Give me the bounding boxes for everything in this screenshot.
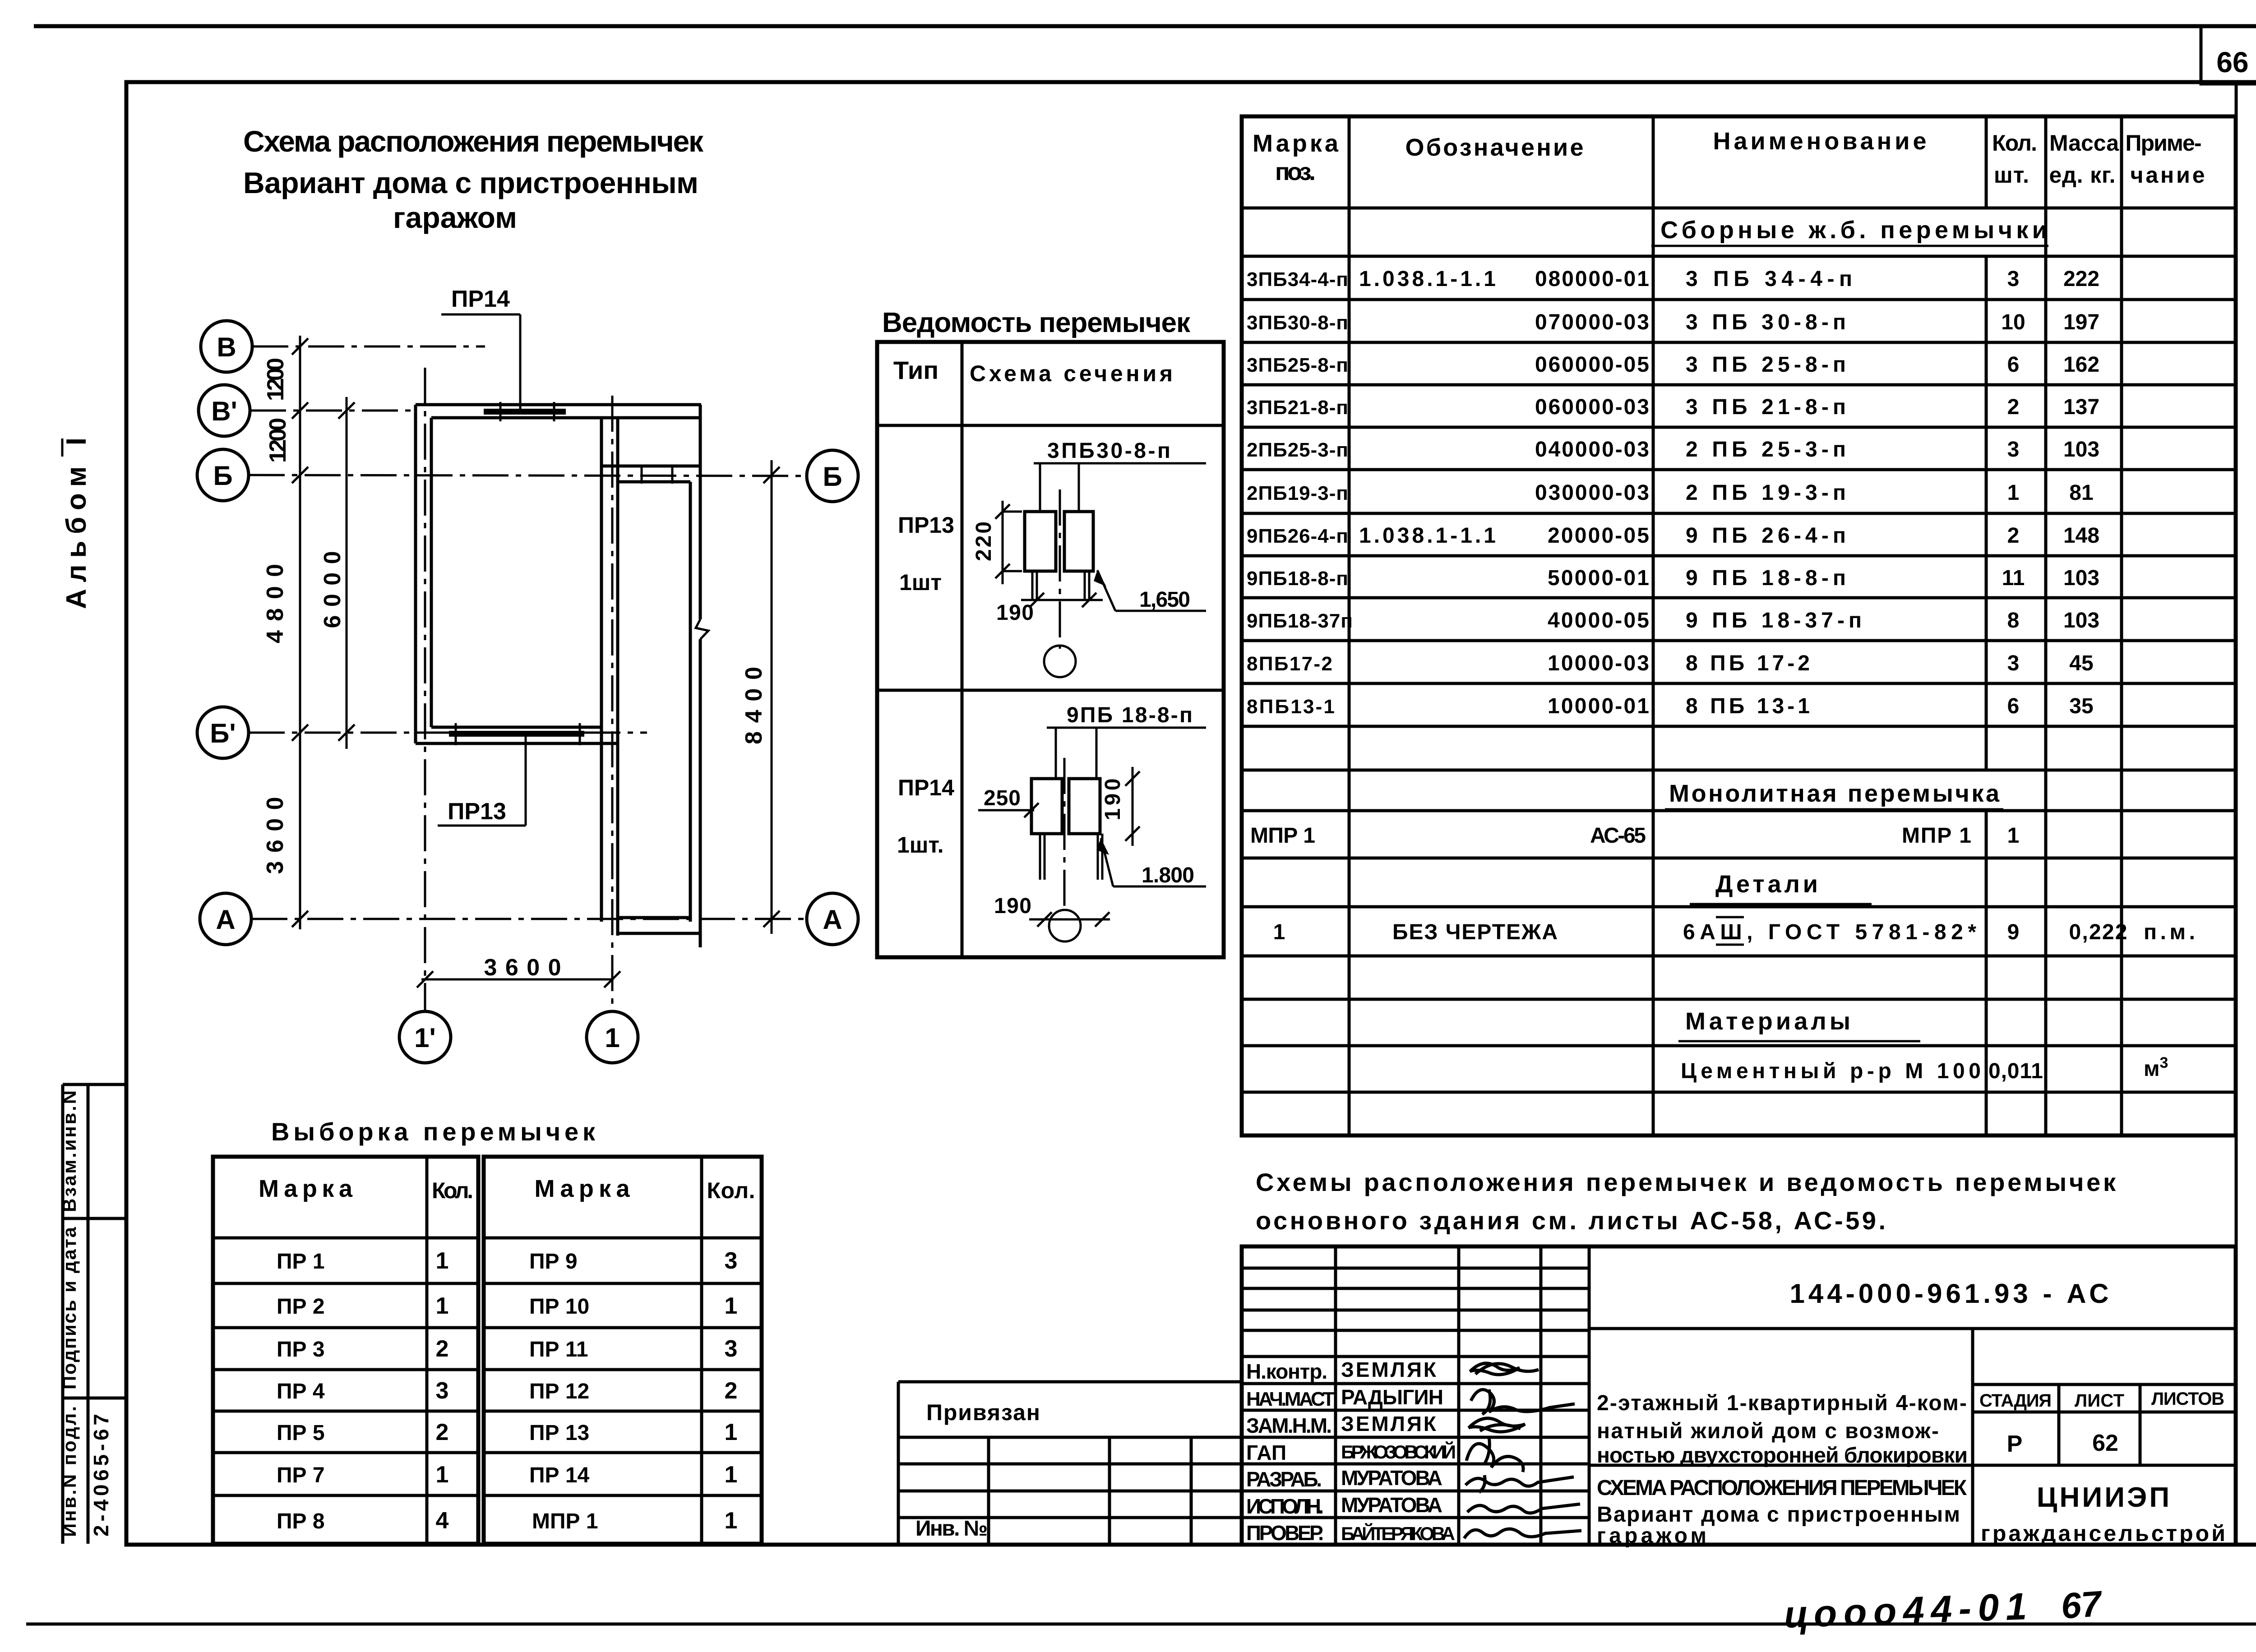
svg-text:1: 1 <box>725 1419 738 1445</box>
elevation 1,650 arrow <box>1097 570 1115 611</box>
section ПР14 block right <box>1069 779 1100 834</box>
svg-text:ПР 9: ПР 9 <box>529 1250 578 1274</box>
garage right wall outer upper <box>699 405 702 619</box>
Ведомость section separator line <box>877 689 1224 692</box>
svg-text:ПР13: ПР13 <box>448 798 506 825</box>
axis line В <box>252 346 485 348</box>
title block v-line roles/names <box>1334 1246 1337 1545</box>
svg-text:ЛИСТ: ЛИСТ <box>2075 1391 2124 1411</box>
elevation 1,650 base line <box>1115 610 1206 612</box>
wall bottom inner <box>431 726 601 729</box>
title block v-line стадия/лист <box>2057 1384 2061 1465</box>
svg-text:В: В <box>217 332 236 362</box>
svg-text:ПР 8: ПР 8 <box>277 1509 325 1533</box>
svg-text:0,222: 0,222 <box>2069 920 2127 944</box>
overline on I of Альбом I <box>61 438 64 457</box>
svg-text:СХЕМА РАСПОЛОЖЕНИЯ ПЕРЕМЫЧЕК: СХЕМА РАСПОЛОЖЕНИЯ ПЕРЕМЫЧЕК <box>1597 1476 1967 1500</box>
svg-text:Привязан: Привязан <box>926 1400 1040 1425</box>
svg-text:Марка: Марка <box>1253 130 1339 157</box>
svg-text:ПР 4: ПР 4 <box>277 1380 325 1403</box>
svg-text:1200: 1200 <box>265 418 291 463</box>
svg-text:Ведомость перемычек: Ведомость перемычек <box>882 307 1191 338</box>
svg-text:БЕЗ ЧЕРТЕЖА: БЕЗ ЧЕРТЕЖА <box>1392 920 1558 944</box>
svg-text:8: 8 <box>2007 609 2020 632</box>
svg-text:2: 2 <box>436 1336 449 1362</box>
signature squiggle 5 <box>1465 1477 1574 1486</box>
section ПР14 leg lines <box>1039 834 1041 880</box>
axis line Б' <box>249 732 647 734</box>
svg-text:2: 2 <box>2007 524 2020 548</box>
svg-text:1,650: 1,650 <box>1139 588 1190 612</box>
svg-text:БРЖОЗОВСКИЙ: БРЖОЗОВСКИЙ <box>1341 1441 1456 1463</box>
svg-text:1: 1 <box>725 1293 738 1319</box>
svg-text:070000-03: 070000-03 <box>1535 310 1649 334</box>
wall left inner <box>430 418 433 727</box>
svg-text:СТАДИЯ: СТАДИЯ <box>1979 1391 2052 1411</box>
svg-text:148: 148 <box>2063 524 2099 548</box>
svg-text:10000-01: 10000-01 <box>1548 694 1649 718</box>
svg-text:103: 103 <box>2063 438 2099 461</box>
lintel ПР13 bar <box>449 731 584 737</box>
svg-text:162: 162 <box>2063 353 2099 377</box>
title block thin top rows <box>1242 1267 1589 1270</box>
axis circle 1 <box>587 1011 638 1063</box>
svg-text:Марка: Марка <box>535 1175 630 1202</box>
dim 190 right ticks <box>1125 771 1140 786</box>
spec col sep Обозначение/Наименование <box>1652 116 1655 1135</box>
svg-text:10000-03: 10000-03 <box>1548 651 1649 675</box>
elevation 1.800 base line <box>1113 886 1206 888</box>
tick 6000 bottom <box>338 724 355 741</box>
svg-text:2-этажный 1-квартирный 4-ком-: 2-этажный 1-квартирный 4-ком- <box>1597 1391 1967 1415</box>
axis line 1' <box>424 368 426 1011</box>
svg-text:20000-05: 20000-05 <box>1548 524 1649 548</box>
svg-text:1: 1 <box>2007 481 2020 505</box>
dim 220 line <box>1002 501 1004 584</box>
svg-text:1: 1 <box>436 1462 449 1488</box>
section ПР14 centerline <box>1063 758 1066 908</box>
svg-text:МПР 1: МПР 1 <box>1250 824 1315 848</box>
leader ПР14 vertical <box>519 314 522 409</box>
Выборка table 2 outer <box>484 1157 762 1544</box>
svg-text:1.038.1-1.1: 1.038.1-1.1 <box>1359 524 1496 548</box>
axis circle А right <box>807 893 858 945</box>
axis line А <box>251 918 807 920</box>
title block v-line names/signatures <box>1457 1246 1461 1545</box>
svg-text:А: А <box>216 904 235 935</box>
svg-text:ед. кг.: ед. кг. <box>2049 162 2116 188</box>
dim 220 ext bottom <box>1003 570 1022 572</box>
svg-text:ПР 2: ПР 2 <box>277 1295 325 1319</box>
svg-text:РАЗРАБ.: РАЗРАБ. <box>1246 1467 1322 1491</box>
section ПР14 node circle <box>1049 910 1081 941</box>
garage bottom wall inner <box>618 916 689 919</box>
svg-text:А: А <box>823 904 842 935</box>
svg-text:ПРОВЕР.: ПРОВЕР. <box>1246 1521 1324 1545</box>
svg-text:080000-01: 080000-01 <box>1535 267 1649 291</box>
svg-text:НАЧ.МАСТ: НАЧ.МАСТ <box>1246 1388 1335 1410</box>
svg-text:ПР14: ПР14 <box>451 286 510 312</box>
svg-text:9ПБ 18-8-п: 9ПБ 18-8-п <box>1067 703 1193 727</box>
section ПР14 block left <box>1031 779 1062 834</box>
axis circle Б <box>197 449 249 501</box>
title block v-line date/description <box>1588 1246 1591 1545</box>
svg-text:3: 3 <box>2007 267 2020 291</box>
svg-text:11: 11 <box>2002 566 2025 590</box>
svg-text:67: 67 <box>2060 1583 2104 1626</box>
svg-text:Н.контр.: Н.контр. <box>1246 1360 1327 1383</box>
dimension line 6000 <box>346 397 348 749</box>
signature squiggle 2 <box>1471 1389 1575 1412</box>
svg-text:1: 1 <box>436 1293 449 1319</box>
svg-text:ПР 11: ПР 11 <box>529 1338 588 1361</box>
title block v-line signatures/date <box>1539 1246 1543 1545</box>
svg-text:Масса: Масса <box>2049 130 2119 156</box>
svg-text:2ПБ25-3-п: 2ПБ25-3-п <box>1247 439 1348 461</box>
Привязан block v-lines <box>987 1437 990 1545</box>
svg-text:Схема сечения: Схема сечения <box>970 361 1173 386</box>
wall right outer line (axis 1) <box>616 418 619 936</box>
svg-text:8ПБ13-1: 8ПБ13-1 <box>1247 696 1335 718</box>
svg-text:030000-03: 030000-03 <box>1535 481 1649 505</box>
garage lintel tick right <box>671 466 674 484</box>
elevation 1.800 arrow <box>1101 838 1113 886</box>
signature squiggle 6 <box>1467 1504 1580 1513</box>
tick В' <box>292 402 308 419</box>
svg-text:197: 197 <box>2063 310 2099 334</box>
Выборка table 1 col sep <box>425 1157 429 1544</box>
svg-text:2-4065-67: 2-4065-67 <box>89 1414 113 1537</box>
svg-text:Приме-: Приме- <box>2126 130 2202 156</box>
axis circle 1' <box>399 1011 451 1063</box>
tick Б <box>292 467 308 483</box>
svg-text:3: 3 <box>2007 651 2020 675</box>
title block стадия header bottom <box>1973 1411 2236 1414</box>
svg-text:МУРАТОВА: МУРАТОВА <box>1341 1493 1442 1517</box>
dim 190 line (ПР13) <box>1021 599 1103 601</box>
svg-text:Кол.: Кол. <box>1992 130 2037 156</box>
svg-text:гаражом: гаражом <box>1597 1524 1706 1548</box>
section ПР14 leader right <box>1096 728 1098 779</box>
svg-text:8ПБ17-2: 8ПБ17-2 <box>1247 653 1332 675</box>
garage bottom wall outer <box>618 932 700 935</box>
spec col sep Наименование/Кол (segmented to skip section titles) <box>1985 116 1988 208</box>
axis circle Б' <box>197 707 249 758</box>
svg-text:ПР 1: ПР 1 <box>277 1250 325 1274</box>
svg-text:Обозначение: Обозначение <box>1405 134 1584 161</box>
svg-text:Марка: Марка <box>259 1175 353 1202</box>
svg-text:250: 250 <box>984 786 1021 810</box>
section ПР13 node circle <box>1044 646 1076 677</box>
svg-text:Инв. №: Инв. № <box>915 1517 988 1541</box>
axis circle В' <box>199 385 250 436</box>
title block line under стадия area top <box>1973 1383 2236 1386</box>
dim 190 right line <box>1132 767 1134 846</box>
section ПР13 leg lines <box>1031 571 1034 600</box>
wall left outer <box>414 405 417 743</box>
section ПР13 leader left <box>1039 463 1041 512</box>
dimension line 8400 <box>771 460 773 934</box>
svg-text:Вариант дома с пристроенным: Вариант дома с пристроенным <box>1597 1503 1960 1527</box>
signature squiggle 1 <box>1470 1363 1520 1375</box>
svg-text:РАДЫГИН: РАДЫГИН <box>1341 1385 1443 1409</box>
svg-text:1: 1 <box>605 1023 619 1053</box>
svg-text:ПР14: ПР14 <box>898 775 954 800</box>
garage lintel tick left <box>641 466 643 484</box>
svg-text:Б: Б <box>823 461 842 492</box>
svg-text:81: 81 <box>2069 481 2093 505</box>
svg-text:2: 2 <box>2007 395 2020 419</box>
svg-text:9: 9 <box>2007 920 2020 944</box>
svg-text:190: 190 <box>994 894 1031 918</box>
wall top outer <box>416 403 701 406</box>
left sidebar column box lines <box>61 1084 65 1544</box>
signature squiggle 7 <box>1464 1529 1581 1538</box>
wall right inner line (axis 1) <box>600 418 603 922</box>
section ПР13 leader right <box>1078 463 1080 512</box>
axis circle А <box>200 893 251 945</box>
dim 220 tick top <box>995 504 1010 519</box>
svg-text:4: 4 <box>436 1508 449 1534</box>
svg-text:1.038.1-1.1: 1.038.1-1.1 <box>1359 267 1496 291</box>
svg-text:2ПБ19-3-п: 2ПБ19-3-п <box>1247 482 1348 504</box>
svg-text:Схема расположения перемычек: Схема расположения перемычек <box>243 125 704 158</box>
svg-text:ПР 13: ПР 13 <box>529 1421 589 1445</box>
Выборка row lines table 1 <box>213 1237 478 1240</box>
dim 220 tick bottom <box>995 564 1010 578</box>
svg-text:БАЙТЕРЯКОВА: БАЙТЕРЯКОВА <box>1341 1523 1455 1544</box>
svg-text:3: 3 <box>725 1336 738 1362</box>
Ведомость header bottom line <box>877 424 1224 427</box>
svg-text:основного здания см. листы АС-: основного здания см. листы АС-58, АС-59. <box>1256 1206 1886 1235</box>
tick 3600 right <box>604 971 620 988</box>
sheet number box 66 <box>2201 26 2256 84</box>
title block line under 144-000 cell <box>1589 1327 2236 1330</box>
svg-text:190: 190 <box>1101 779 1125 821</box>
dim 190 bottom line (ПР14) <box>1029 918 1110 921</box>
Привязан block left edge <box>897 1382 900 1545</box>
dimension line left 1200/1200/4800/3600 <box>299 336 301 929</box>
svg-text:9ПБ18-37п: 9ПБ18-37п <box>1247 610 1353 632</box>
lintel ПР14 end tick right <box>553 402 555 421</box>
svg-text:1: 1 <box>725 1462 738 1488</box>
dim 250 line <box>978 809 1034 812</box>
svg-text:137: 137 <box>2063 395 2099 419</box>
tick 3600 left <box>417 971 433 988</box>
svg-text:144-000-961.93 - АС: 144-000-961.93 - АС <box>1790 1278 2109 1309</box>
tick 8400 bottom <box>763 911 780 927</box>
svg-text:ЛИСТОВ: ЛИСТОВ <box>2151 1389 2224 1409</box>
svg-text:1': 1' <box>414 1023 436 1053</box>
svg-text:Монолитная перемычка: Монолитная перемычка <box>1669 780 2000 807</box>
svg-text:1шт.: 1шт. <box>897 832 943 858</box>
svg-text:Р: Р <box>2007 1431 2023 1457</box>
leader ПР13 underline <box>438 825 526 827</box>
axis circle Б right <box>807 450 858 502</box>
wall bottom outer <box>416 742 618 745</box>
inner right vertical line <box>2235 84 2238 1545</box>
svg-text:1шт: 1шт <box>899 570 942 595</box>
svg-text:ПР 5: ПР 5 <box>277 1421 325 1445</box>
title block line under description <box>1589 1464 2236 1467</box>
lintel ПР13 end tick left <box>455 723 457 745</box>
svg-text:3: 3 <box>725 1248 738 1274</box>
lintel ПР13 end tick right <box>579 723 581 745</box>
svg-text:3ПБ30-8-п: 3ПБ30-8-п <box>1247 312 1348 334</box>
svg-text:Выборка перемычек: Выборка перемычек <box>271 1117 596 1146</box>
Привязан block row lines <box>898 1436 1242 1439</box>
signature squiggle 3 <box>1469 1418 1525 1432</box>
dimension line 3600 bottom <box>421 978 614 981</box>
svg-text:гаражом: гаражом <box>393 201 517 234</box>
svg-text:В': В' <box>211 396 237 426</box>
svg-text:060000-03: 060000-03 <box>1535 395 1649 419</box>
section ПР14 leader left <box>1055 728 1057 779</box>
section ПР13 block right <box>1064 512 1093 571</box>
svg-text:060000-05: 060000-05 <box>1535 353 1649 377</box>
lintel ПР14 end tick left <box>499 402 502 421</box>
spec col sep Кол/Масса <box>2044 116 2048 1135</box>
svg-text:МУРАТОВА: МУРАТОВА <box>1341 1466 1442 1490</box>
tick Б' <box>292 724 308 741</box>
svg-text:8 ПБ 13-1: 8 ПБ 13-1 <box>1686 694 1810 718</box>
section ПР13 label underline <box>1034 462 1206 465</box>
section ПР13 centerline <box>1059 489 1061 649</box>
svg-text:45: 45 <box>2069 651 2093 675</box>
svg-text:1: 1 <box>436 1248 449 1274</box>
title block v-line description/стадия <box>1971 1329 1974 1545</box>
svg-text:2: 2 <box>725 1378 738 1404</box>
tick А <box>292 911 308 927</box>
svg-text:62: 62 <box>2092 1430 2118 1456</box>
svg-text:цооо44-01: цооо44-01 <box>1783 1585 2027 1636</box>
svg-text:1: 1 <box>725 1508 738 1534</box>
svg-text:Взам.инв.N: Взам.инв.N <box>59 1090 80 1212</box>
section ПР13 block left <box>1025 512 1056 571</box>
svg-text:9ПБ26-4-п: 9ПБ26-4-п <box>1247 525 1348 547</box>
break mark on garage right wall <box>696 619 708 639</box>
svg-text:Подпись и дата: Подпись и дата <box>59 1227 80 1389</box>
svg-text:шт.: шт. <box>1994 162 2029 188</box>
svg-text:ГАП: ГАП <box>1246 1441 1286 1464</box>
dim 190 ticks <box>1030 593 1044 607</box>
title block outer box <box>1242 1246 2236 1545</box>
svg-text:ПР 12: ПР 12 <box>529 1380 589 1403</box>
axis line В' <box>250 410 416 412</box>
svg-text:3: 3 <box>2007 438 2020 461</box>
Ведомость column separator <box>961 342 964 957</box>
svg-text:3ПБ34-4-п: 3ПБ34-4-п <box>1247 268 1348 291</box>
svg-text:1: 1 <box>2007 824 2020 848</box>
svg-text:Б: Б <box>213 461 232 491</box>
Выборка row lines table 2 <box>484 1237 762 1240</box>
dim 190 bottom ticks <box>1037 912 1052 927</box>
section ПР14 label underline <box>1047 727 1206 729</box>
svg-text:ИСПОЛН.: ИСПОЛН. <box>1246 1495 1324 1518</box>
svg-text:35: 35 <box>2069 694 2093 718</box>
svg-text:50000-01: 50000-01 <box>1548 566 1649 590</box>
lintel ПР14 bar <box>484 409 566 415</box>
tick В <box>292 338 308 355</box>
svg-text:9ПБ18-8-п: 9ПБ18-8-п <box>1247 568 1348 590</box>
leader ПР13 vertical <box>525 737 527 826</box>
svg-text:1200: 1200 <box>263 358 289 401</box>
svg-text:АС-65: АС-65 <box>1590 824 1646 848</box>
spec row lines <box>1242 255 2236 258</box>
svg-text:Наименование: Наименование <box>1713 128 1927 155</box>
garage top wall inner <box>618 480 690 484</box>
specification table outer box <box>1242 116 2236 1135</box>
svg-text:1: 1 <box>1273 920 1285 944</box>
svg-text:Кол.: Кол. <box>432 1178 473 1203</box>
tick 6000 top <box>338 402 355 419</box>
Привязан block top line <box>898 1380 1242 1384</box>
Выборка table 2 col sep <box>700 1157 703 1544</box>
signature squiggle 4 <box>1466 1437 1523 1472</box>
sheet top edge line <box>34 24 2256 28</box>
axis line 1 <box>611 396 614 1011</box>
garage right wall inner <box>689 482 692 922</box>
svg-text:040000-03: 040000-03 <box>1535 438 1649 461</box>
Выборка table 1 outer <box>213 1157 478 1544</box>
svg-text:ПР 3: ПР 3 <box>277 1338 325 1361</box>
svg-text:ПР 14: ПР 14 <box>529 1463 590 1487</box>
svg-text:ЗАМ.Н.М.: ЗАМ.Н.М. <box>1246 1414 1332 1437</box>
svg-text:103: 103 <box>2063 609 2099 632</box>
svg-text:3ПБ21-8-п: 3ПБ21-8-п <box>1247 397 1348 419</box>
svg-text:поз.: поз. <box>1275 158 1316 185</box>
svg-text:220: 220 <box>972 521 996 561</box>
dim 250 tick <box>1024 803 1039 817</box>
svg-text:ПР 10: ПР 10 <box>529 1295 589 1319</box>
spec col sep Масса/Примечание <box>2120 116 2123 1135</box>
svg-text:натный жилой дом с возмож-: натный жилой дом с возмож- <box>1597 1419 1939 1443</box>
spec header bottom line <box>1242 207 2236 210</box>
svg-text:190: 190 <box>996 601 1034 625</box>
Ведомость table outer box <box>877 342 1224 957</box>
wall top inner <box>431 416 699 420</box>
svg-text:6: 6 <box>2007 694 2020 718</box>
svg-text:Б': Б' <box>210 718 236 748</box>
svg-text:6: 6 <box>2007 353 2020 377</box>
svg-text:3: 3 <box>436 1378 449 1404</box>
axis circle В <box>201 321 252 372</box>
svg-text:ПР13: ПР13 <box>898 512 954 538</box>
svg-text:Вариант дома с пристроенным: Вариант дома с пристроенным <box>243 166 698 199</box>
title block v-line лист/листов <box>2139 1384 2142 1465</box>
spec col sep Марка/Обозначение <box>1348 116 1351 1135</box>
tick 8400 top <box>763 467 780 483</box>
svg-text:Материалы: Материалы <box>1685 1008 1850 1035</box>
svg-text:Кол.: Кол. <box>707 1178 755 1203</box>
svg-text:МПР 1: МПР 1 <box>532 1509 598 1533</box>
svg-text:0,011: 0,011 <box>1988 1059 2043 1083</box>
title block signature row lines <box>1242 1355 1589 1358</box>
svg-text:3ПБ25-8-п: 3ПБ25-8-п <box>1247 354 1348 376</box>
svg-text:ностью двухсторонней блокировк: ностью двухсторонней блокировки <box>1597 1444 1968 1467</box>
svg-text:10: 10 <box>2001 310 2025 334</box>
axis line Б <box>249 475 807 476</box>
svg-text:2: 2 <box>436 1419 449 1445</box>
svg-text:66: 66 <box>2216 46 2248 78</box>
svg-text:чание: чание <box>2131 162 2205 188</box>
svg-text:ПР 7: ПР 7 <box>277 1463 325 1487</box>
svg-text:222: 222 <box>2063 267 2099 291</box>
sheet bottom edge line <box>26 1623 2256 1626</box>
garage top wall outer <box>601 465 700 468</box>
svg-text:40000-05: 40000-05 <box>1548 609 1649 632</box>
svg-text:103: 103 <box>2063 566 2099 590</box>
